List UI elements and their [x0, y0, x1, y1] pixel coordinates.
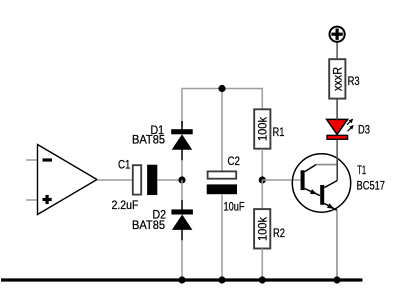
svg-text:10uF: 10uF [224, 200, 245, 214]
LED D3 light arrows [347, 119, 354, 132]
svg-text:100k: 100k [255, 116, 269, 141]
wire op-amp output to C1 [97, 179, 132, 181]
wire D2 to ground rail [181, 240, 183, 280]
ground rail [1, 278, 363, 281]
wire T1 collector to D3 [336, 140, 338, 160]
LED D3 [327, 119, 348, 139]
wire inverting input stub [26, 159, 38, 161]
wire C1 to node A [157, 179, 182, 181]
svg-text:xxxR: xxxR [330, 67, 344, 91]
node D2 ground junction [178, 276, 185, 283]
wire R1 to node B [261, 149, 263, 180]
wire top rail D1/C2/R1 [182, 89, 262, 127]
wire node B to R2 [261, 180, 263, 209]
wire D1 to node A [181, 160, 183, 180]
wire C2 to ground rail [221, 194, 223, 280]
svg-text:R1: R1 [273, 125, 285, 139]
svg-text:C1: C1 [118, 157, 131, 171]
node top junction at C2 [218, 85, 225, 92]
svg-text:100k: 100k [255, 216, 269, 241]
wire C2 branch from top rail [221, 89, 223, 171]
capacitor C2 [207, 171, 237, 194]
diode D1 [171, 121, 193, 161]
node A junction C1/D1/D2 [178, 176, 185, 183]
resistor R1 [254, 109, 270, 148]
svg-text:BAT85: BAT85 [132, 132, 165, 146]
power supply + symbol [330, 27, 345, 42]
resistor R3 [329, 59, 345, 98]
wire non-inverting input stub [26, 199, 38, 201]
svg-text:BC517: BC517 [357, 178, 386, 192]
node T1 emitter ground junction [333, 276, 340, 283]
svg-text:R2: R2 [273, 226, 285, 240]
wire D3 to R3 [336, 99, 338, 120]
svg-text:D3: D3 [358, 123, 370, 137]
diode D2 [171, 200, 193, 241]
node R2 ground junction [259, 276, 266, 283]
svg-text:2.2uF: 2.2uF [112, 198, 139, 212]
wire node A to D2 [181, 180, 183, 201]
wire R3 to power symbol [336, 42, 338, 59]
svg-text:R3: R3 [348, 74, 360, 88]
svg-text:C2: C2 [228, 154, 241, 168]
svg-text:BAT85: BAT85 [132, 218, 165, 232]
wire R2 to ground rail [261, 249, 263, 281]
transistor T1 [292, 154, 350, 212]
op-amp U1 [38, 145, 98, 215]
capacitor C1 [133, 165, 158, 195]
wire node B to T1 base [262, 179, 300, 181]
wire T1 emitter to ground rail [336, 211, 338, 281]
node C2 ground junction [218, 276, 225, 283]
svg-text:T1: T1 [357, 163, 366, 177]
resistor R2 [254, 209, 270, 248]
node B junction R1/R2/base [259, 176, 266, 183]
